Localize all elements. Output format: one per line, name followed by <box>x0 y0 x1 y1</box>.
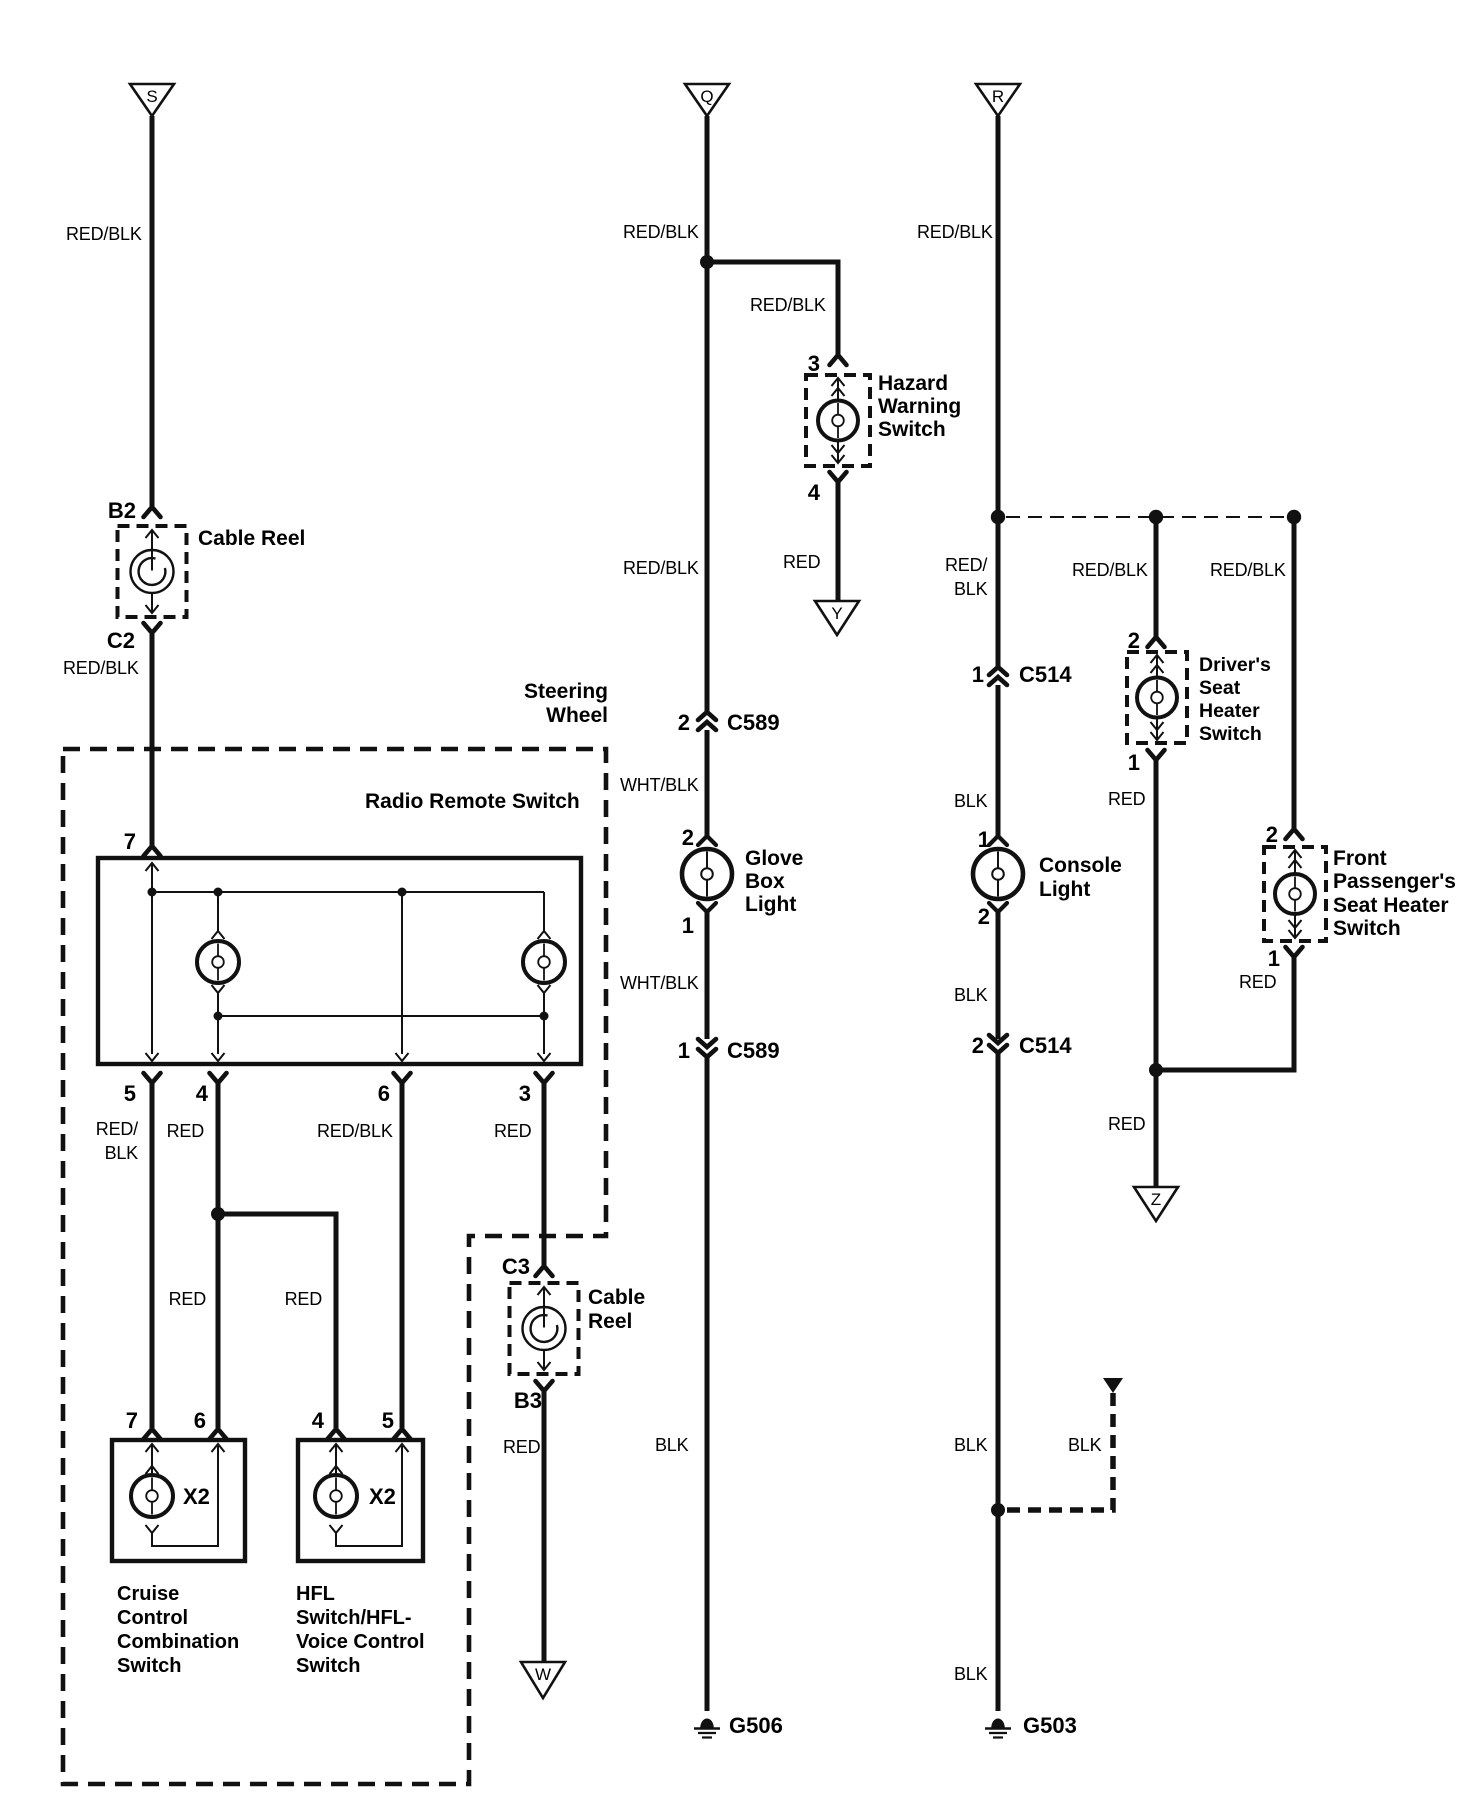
wire to ground G503 (BLK) <box>996 1053 1001 1711</box>
lamp X2 (cruise) <box>131 1475 173 1517</box>
svg-text:C514: C514 <box>1019 662 1072 687</box>
svg-text:Q: Q <box>700 87 713 106</box>
fork at driver heater top <box>1148 637 1165 647</box>
connector C589 pin 1 <box>698 1039 716 1057</box>
svg-text:Seat: Seat <box>1199 677 1241 699</box>
svg-text:Switch/HFL-: Switch/HFL- <box>296 1607 412 1629</box>
front passenger seat heater switch <box>1264 847 1326 941</box>
svg-text:4: 4 <box>312 1408 325 1433</box>
svg-text:3: 3 <box>808 351 820 376</box>
svg-text:C589: C589 <box>727 710 780 735</box>
svg-text:Combination: Combination <box>117 1631 239 1653</box>
svg-text:RED: RED <box>494 1121 532 1141</box>
svg-text:BLK: BLK <box>1068 1435 1102 1455</box>
internal lamp branch left <box>217 892 219 931</box>
wire pin5 to cruise switch pin7 (RED/BLK) <box>150 1083 155 1428</box>
svg-text:BLK: BLK <box>954 1664 988 1684</box>
fork at driver heater bottom <box>1148 750 1165 760</box>
svg-text:1: 1 <box>678 1038 690 1063</box>
svg-text:Wheel: Wheel <box>546 704 608 727</box>
svg-text:Cable Reel: Cable Reel <box>198 527 305 550</box>
internal wire pin6 <box>401 892 403 1054</box>
wire Q down (RED/BLK) <box>705 116 710 712</box>
connector triangle W <box>521 1662 565 1698</box>
fork at hazard top <box>830 355 847 365</box>
svg-text:Cruise: Cruise <box>117 1583 179 1605</box>
connector C514 pin 2 <box>989 1035 1007 1053</box>
svg-text:Z: Z <box>1151 1190 1161 1209</box>
svg-text:S: S <box>146 87 157 106</box>
connector triangle Q <box>685 84 729 116</box>
dashed BLK branch wire <box>1004 1393 1113 1510</box>
svg-text:1: 1 <box>1268 946 1280 971</box>
svg-text:2: 2 <box>682 825 694 850</box>
ground G503 <box>991 1719 1005 1728</box>
svg-text:RED/BLK: RED/BLK <box>1210 560 1286 580</box>
svg-text:RED: RED <box>167 1121 205 1141</box>
svg-text:1: 1 <box>682 913 694 938</box>
svg-text:Switch: Switch <box>296 1655 360 1677</box>
svg-text:RED/BLK: RED/BLK <box>917 222 993 242</box>
svg-text:BLK: BLK <box>105 1143 139 1163</box>
svg-text:Switch: Switch <box>1333 917 1401 940</box>
svg-text:Cable: Cable <box>588 1286 645 1309</box>
wire to console light (BLK) <box>996 685 1001 836</box>
internal lamp branch right <box>543 892 545 931</box>
svg-text:RED/: RED/ <box>945 555 987 575</box>
svg-text:Voice Control: Voice Control <box>296 1631 425 1653</box>
wire pin6 to HFL pin5 (RED/BLK) <box>400 1083 405 1428</box>
svg-text:Hazard: Hazard <box>878 372 948 395</box>
svg-text:RED: RED <box>169 1289 207 1309</box>
svg-text:Radio Remote Switch: Radio Remote Switch <box>365 790 580 813</box>
lamp X2 (HFL) <box>315 1475 357 1517</box>
wire to driver seat heater switch (RED/BLK) <box>1154 517 1159 637</box>
svg-text:RED/BLK: RED/BLK <box>623 558 699 578</box>
svg-text:1: 1 <box>972 662 984 687</box>
wire to glove box light (WHT/BLK) <box>705 730 710 836</box>
svg-text:6: 6 <box>194 1408 206 1433</box>
svg-text:3: 3 <box>519 1081 531 1106</box>
svg-text:RED/BLK: RED/BLK <box>317 1121 393 1141</box>
svg-text:Light: Light <box>745 893 796 916</box>
svg-text:RED/BLK: RED/BLK <box>66 224 142 244</box>
svg-text:WHT/BLK: WHT/BLK <box>620 973 699 993</box>
junction node seat heater return <box>1149 1063 1163 1077</box>
pin 7 fork <box>144 846 161 856</box>
lamp (radio illumination right) <box>523 941 565 983</box>
dashed feed line to seat heater switches <box>1006 516 1294 518</box>
svg-text:C2: C2 <box>107 628 135 653</box>
cruise control combination switch box <box>112 1440 245 1561</box>
svg-text:G503: G503 <box>1023 1713 1077 1738</box>
svg-text:RED/BLK: RED/BLK <box>750 295 826 315</box>
svg-text:R: R <box>992 87 1004 106</box>
svg-text:RED/BLK: RED/BLK <box>63 658 139 678</box>
wire passenger heater down (RED) <box>1156 957 1294 1070</box>
wire B3 to W (RED) <box>542 1391 547 1661</box>
svg-text:BLK: BLK <box>954 791 988 811</box>
junction node to hazard branch <box>700 255 714 269</box>
svg-text:BLK: BLK <box>954 985 988 1005</box>
junction node seat heater feed <box>991 510 1005 524</box>
wire driver heater to junction (RED) <box>1154 760 1159 1186</box>
svg-text:BLK: BLK <box>655 1435 689 1455</box>
svg-text:C589: C589 <box>727 1038 780 1063</box>
wire S to B2 (RED/BLK) <box>150 116 155 507</box>
svg-text:Passenger's: Passenger's <box>1333 870 1456 893</box>
svg-text:WHT/BLK: WHT/BLK <box>620 775 699 795</box>
svg-text:RED: RED <box>1108 789 1146 809</box>
internal bus top <box>152 891 544 893</box>
continuation arrow (to other circuit) <box>1103 1378 1123 1393</box>
svg-text:7: 7 <box>124 829 136 854</box>
svg-text:2: 2 <box>978 904 990 929</box>
wire junction to passenger heater <box>1156 1068 1294 1073</box>
console light lamp <box>989 836 1007 845</box>
svg-text:Reel: Reel <box>588 1310 632 1333</box>
wire to ground G506 (BLK) <box>705 1057 710 1711</box>
svg-text:Switch: Switch <box>1199 723 1262 745</box>
svg-text:RED: RED <box>1239 972 1277 992</box>
svg-text:G506: G506 <box>729 1713 783 1738</box>
connector triangle R <box>976 84 1020 116</box>
internal bus bottom <box>218 1015 544 1017</box>
svg-text:Box: Box <box>745 870 785 893</box>
svg-text:Front: Front <box>1333 847 1387 870</box>
cable reel B2/C2 <box>118 526 187 617</box>
svg-text:Switch: Switch <box>878 418 946 441</box>
branch wire to HFL pin4 (RED) <box>218 1214 336 1428</box>
svg-text:RED/: RED/ <box>96 1119 138 1139</box>
svg-text:Seat Heater: Seat Heater <box>1333 894 1449 917</box>
hazard warning switch <box>806 375 870 466</box>
internal wire pin7 branch <box>146 863 159 871</box>
forks at cruise box <box>144 1429 161 1439</box>
svg-text:5: 5 <box>382 1408 394 1433</box>
svg-text:X2: X2 <box>369 1484 396 1509</box>
wire pin4 to cruise switch pin6 (RED) <box>216 1083 221 1428</box>
connector triangle Y <box>815 601 859 635</box>
connector C2 fork <box>144 623 161 633</box>
svg-text:Light: Light <box>1039 878 1090 901</box>
branch wire to hazard switch (RED/BLK) <box>707 262 838 355</box>
svg-text:RED: RED <box>1108 1114 1146 1134</box>
HFL switch box <box>298 1440 423 1561</box>
svg-text:RED/BLK: RED/BLK <box>623 222 699 242</box>
svg-text:B2: B2 <box>108 498 136 523</box>
wire console light down (BLK) <box>996 912 1001 1039</box>
pin forks below box <box>144 1073 161 1083</box>
wire hazard to Y (RED) <box>836 482 841 601</box>
connector C3 fork <box>536 1266 553 1276</box>
wire R down (RED/BLK) <box>996 116 1001 667</box>
svg-text:Heater: Heater <box>1199 700 1260 722</box>
radio remote switch box <box>98 858 581 1064</box>
driver seat heater switch <box>1127 652 1187 743</box>
svg-text:Steering: Steering <box>524 680 608 703</box>
wire glove box light down (WHT/BLK) <box>705 912 710 1039</box>
connector triangle S <box>130 84 174 116</box>
svg-text:Driver's: Driver's <box>1199 654 1271 676</box>
svg-text:W: W <box>535 1665 551 1684</box>
svg-text:Glove: Glove <box>745 847 803 870</box>
connector C589 pin 2 <box>698 712 716 730</box>
steering wheel boundary (dashed) <box>63 749 606 1784</box>
svg-text:RED: RED <box>503 1437 541 1457</box>
connector B2 fork <box>144 507 161 517</box>
connector B3 fork <box>536 1381 553 1391</box>
svg-text:RED: RED <box>285 1289 323 1309</box>
wire C2 to radio remote switch pin 7 (RED/BLK) <box>150 633 155 845</box>
svg-text:Y: Y <box>831 604 842 623</box>
svg-text:BLK: BLK <box>954 579 988 599</box>
svg-text:C514: C514 <box>1019 1033 1072 1058</box>
svg-text:Warning: Warning <box>878 395 961 418</box>
svg-text:1: 1 <box>1128 750 1140 775</box>
connector triangle Z <box>1134 1187 1178 1221</box>
svg-text:BLK: BLK <box>954 1435 988 1455</box>
cruise internal circuit <box>146 1444 159 1452</box>
forks at HFL box <box>328 1429 345 1439</box>
fork at passenger heater bottom <box>1286 947 1303 957</box>
svg-text:4: 4 <box>196 1081 209 1106</box>
svg-text:5: 5 <box>124 1081 136 1106</box>
glove box light lamp <box>698 836 716 845</box>
svg-text:Switch: Switch <box>117 1655 181 1677</box>
wire to passenger seat heater switch (RED/BLK) <box>1292 517 1297 829</box>
svg-text:HFL: HFL <box>296 1583 335 1605</box>
svg-text:4: 4 <box>808 480 821 505</box>
junction node on RED wire <box>211 1207 225 1221</box>
svg-text:2: 2 <box>1266 822 1278 847</box>
svg-text:C3: C3 <box>502 1254 530 1279</box>
svg-text:RED/BLK: RED/BLK <box>1072 560 1148 580</box>
connector C514 pin 1 <box>989 667 1007 685</box>
HFL internal circuit <box>330 1444 343 1452</box>
fork at hazard bottom <box>830 472 847 482</box>
junction node dashed BLK branch <box>991 1503 1005 1517</box>
svg-text:RED: RED <box>783 552 821 572</box>
svg-text:2: 2 <box>678 710 690 735</box>
svg-text:2: 2 <box>1128 628 1140 653</box>
svg-text:6: 6 <box>378 1081 390 1106</box>
wire pin3 to C3 (RED) <box>542 1083 547 1266</box>
svg-text:2: 2 <box>972 1033 984 1058</box>
lamp (radio illumination left) <box>197 941 239 983</box>
svg-text:B3: B3 <box>514 1388 542 1413</box>
cable reel C3/B3 <box>510 1283 579 1374</box>
svg-text:Control: Control <box>117 1607 188 1629</box>
svg-text:7: 7 <box>126 1408 138 1433</box>
ground G506 <box>700 1719 714 1728</box>
svg-text:1: 1 <box>978 827 990 852</box>
svg-text:X2: X2 <box>183 1484 210 1509</box>
svg-text:Console: Console <box>1039 854 1122 877</box>
fork at passenger heater top <box>1286 829 1303 839</box>
